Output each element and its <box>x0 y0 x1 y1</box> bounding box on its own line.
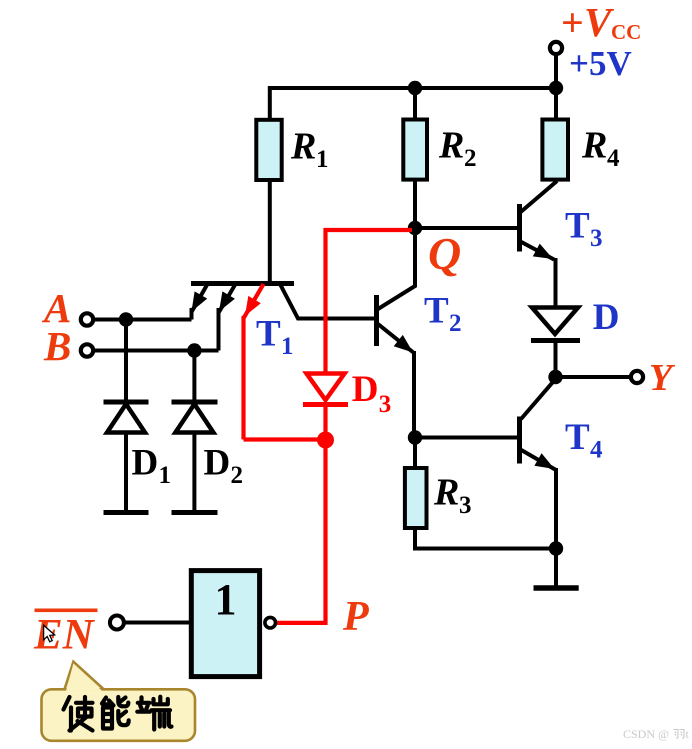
terminal EN <box>110 616 124 630</box>
transistor T4 collector <box>521 379 556 419</box>
mouse cursor <box>44 625 55 642</box>
label R2 <box>438 125 477 173</box>
svg-text:Y: Y <box>649 357 676 399</box>
watermark <box>623 727 690 741</box>
svg-text:D: D <box>593 297 620 338</box>
wire red enable emitter down <box>241 316 245 440</box>
svg-text:3: 3 <box>590 225 603 252</box>
label EN with overline <box>33 609 98 659</box>
wire output Y <box>556 375 630 379</box>
diode D1 <box>104 320 149 511</box>
svg-text:R: R <box>433 472 459 514</box>
transistor T1 emitter 2 (input B) <box>219 284 236 351</box>
resistor R1 <box>256 120 281 180</box>
callout balloon 使能端 <box>42 662 196 741</box>
svg-text:+: + <box>561 0 584 45</box>
label +VCC <box>561 0 641 45</box>
glyph 端 <box>137 697 171 730</box>
wire red D3 branch top to node Q <box>326 230 413 372</box>
svg-text:R: R <box>438 125 464 167</box>
ground bar under D2 <box>172 510 218 515</box>
svg-text:3: 3 <box>379 391 392 418</box>
svg-text:2: 2 <box>464 145 477 172</box>
junction top rail R4 <box>549 81 563 95</box>
transistor T2 base bar <box>374 295 379 346</box>
ground bar under D1 <box>104 510 149 515</box>
svg-text:R: R <box>581 125 607 167</box>
label R1 <box>290 126 329 174</box>
svg-text:CSDN @: CSDN @ <box>623 727 669 741</box>
wire R1 bottom stem <box>268 179 272 284</box>
transistor T2 collector <box>378 228 415 309</box>
svg-text:Q: Q <box>428 228 461 279</box>
diode D2 <box>172 351 218 511</box>
inverter gate box <box>191 571 259 677</box>
svg-text:T: T <box>256 314 281 355</box>
label D3 <box>352 369 392 418</box>
label D1 <box>132 443 172 490</box>
label T3 <box>565 206 603 252</box>
svg-text:T: T <box>565 417 590 458</box>
svg-text:2: 2 <box>231 462 244 489</box>
diode D <box>531 308 580 378</box>
wire top VCC rail <box>270 88 556 120</box>
svg-text:4: 4 <box>607 145 620 172</box>
transistor T1 collector <box>280 284 376 319</box>
glyph 能 <box>102 697 129 729</box>
terminal input B <box>81 344 93 356</box>
inverter output bubble <box>265 617 276 628</box>
terminal input A <box>81 313 93 325</box>
label 使能端 (hand-drawn glyphs) <box>64 697 172 731</box>
transistor T3 base bar <box>517 204 522 252</box>
junction node Y <box>548 370 562 384</box>
label R4 <box>581 125 620 173</box>
label T4 <box>565 417 603 464</box>
label T1 <box>256 314 294 361</box>
svg-text:1: 1 <box>281 333 294 360</box>
svg-text:D: D <box>132 443 159 484</box>
transistor T1 multi-emitter base bar <box>191 281 294 286</box>
wire red from inverter output P up to D3 <box>277 404 326 623</box>
label T2 <box>424 291 462 338</box>
wire red bottom horizontal to node P branch <box>244 437 326 441</box>
svg-text:EN: EN <box>33 612 96 659</box>
transistor T2 emitter <box>378 324 414 439</box>
wire EN input <box>125 621 191 625</box>
junction top rail R2 <box>408 81 422 95</box>
svg-text:4: 4 <box>590 437 603 464</box>
transistor T1 emitter 1 (input A) <box>192 284 208 320</box>
wire input A <box>95 318 192 322</box>
wire VCC stem <box>554 54 558 120</box>
wire node Q to T3 base <box>415 226 517 230</box>
svg-text:1: 1 <box>159 462 172 489</box>
transistor T4 emitter <box>520 449 557 549</box>
label D2 <box>204 443 244 490</box>
diode D3 <box>303 374 348 405</box>
transistor T1 red enable emitter 3 <box>244 284 264 318</box>
svg-text:+5V: +5V <box>569 44 632 83</box>
svg-text:D: D <box>204 443 231 484</box>
transistor T3 collector <box>520 181 558 213</box>
ground <box>534 549 579 589</box>
junction T2 emitter / R3 / T4 base <box>408 430 422 444</box>
junction T4 emitter / R3 / ground <box>549 541 563 555</box>
glyph 使 <box>64 697 93 731</box>
svg-text:R: R <box>290 126 316 168</box>
wire R2 top stem <box>413 90 417 120</box>
svg-text:T: T <box>424 291 449 332</box>
wire input B <box>95 349 219 353</box>
svg-text:1: 1 <box>316 146 329 173</box>
wire T4 base <box>415 436 517 440</box>
junction red node <box>317 432 334 449</box>
svg-text:P: P <box>342 594 369 640</box>
resistor R3 <box>405 438 556 549</box>
svg-text:2: 2 <box>449 310 462 337</box>
terminal Y <box>631 371 643 383</box>
junction input A / D1 <box>119 312 133 326</box>
svg-text:T: T <box>565 206 590 247</box>
svg-text:3: 3 <box>459 492 472 519</box>
svg-text:CC: CC <box>611 20 641 44</box>
label R3 <box>433 472 472 520</box>
svg-text:D: D <box>352 369 379 410</box>
terminal +VCC <box>550 42 562 54</box>
svg-text:1: 1 <box>215 575 237 624</box>
junction node Q <box>408 221 422 235</box>
resistor R4 <box>542 120 568 180</box>
transistor T3 emitter <box>520 241 556 309</box>
junction input B / D2 <box>187 343 201 357</box>
wire R2 bottom stem to node Q <box>413 179 417 228</box>
resistor R2 <box>403 120 427 180</box>
transistor T4 base bar <box>517 417 522 464</box>
svg-text:B: B <box>43 323 71 369</box>
